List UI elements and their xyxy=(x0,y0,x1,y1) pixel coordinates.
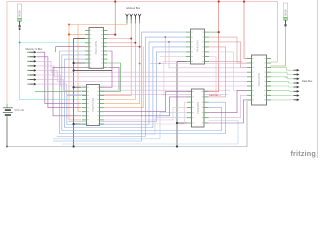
junction black U2 pin 1 xyxy=(73,86,75,88)
wire purple U1 pin 10 to U2 pin 8 xyxy=(53,67,85,116)
wire black branch under U1 xyxy=(74,70,112,72)
wire black branch to U4 pin 7 xyxy=(177,122,187,124)
wire purple M2 header to U5 pin 17 xyxy=(37,61,247,72)
junction red tap row4 xyxy=(134,42,136,44)
wire battery negative to GND rail xyxy=(6,118,8,147)
svg-text:74HC245N: 74HC245N xyxy=(257,73,261,87)
svg-text:Address Bus: Address Bus xyxy=(126,7,141,10)
wire purple M4 header to U5 pin 15 xyxy=(37,70,247,81)
wire VCC drop to U1 pin 19 xyxy=(107,2,115,35)
wire pale pink U2 pin 15 to U4 pin 3 xyxy=(104,102,187,124)
wire green data D0 U5 to header xyxy=(267,68,294,71)
svg-text:74HC245N: 74HC245N xyxy=(94,41,98,55)
wire light purple left tail at y63.5 xyxy=(150,63,165,65)
connector header Memory In Bus xyxy=(27,51,36,86)
canvas right edge line xyxy=(316,0,318,158)
wire stub U3 pin 14 to VCC drop xyxy=(209,31,219,33)
wire green data D4 U5 to header xyxy=(267,86,294,87)
wire blue D4 U3 pin 2 strand xyxy=(57,37,186,136)
svg-text:fritzing: fritzing xyxy=(290,149,316,158)
junction orange A0 corner xyxy=(68,24,70,26)
junction GND rail battery corner xyxy=(6,146,8,148)
wire pink L into U3 pin 6 xyxy=(160,56,186,58)
wire red U1 pin 15 tap xyxy=(108,46,140,48)
junction U1 pin 19 VCC xyxy=(114,34,116,36)
junction purple tap on U3 row2 xyxy=(164,36,166,38)
wire purple U2 pin 17 to U4 pin 2 xyxy=(104,97,187,116)
wire green data D2 U5 to header xyxy=(267,77,294,79)
wire blue D0 U1 pin 14 to U4 pin 12 xyxy=(59,51,225,134)
IC U1 74HC245N xyxy=(85,28,108,69)
wire orange A2 vertical to U2 pin 29 xyxy=(104,24,135,100)
svg-text:Data Bus: Data Bus xyxy=(302,80,313,83)
wire black branch to U1 pin 9 xyxy=(74,62,85,64)
junction red tap row5 xyxy=(139,46,141,48)
wire black GND U1 pin 17 xyxy=(74,39,85,147)
wire green data D7 U5 to header xyxy=(267,99,294,101)
wire blue D1 U1 pin 13 to U4 pin 11 xyxy=(62,55,222,131)
junction purple tap on U3 row3 xyxy=(168,41,170,43)
IC U2 74HC574N xyxy=(82,85,104,126)
junction teal top xyxy=(19,28,21,30)
wire pale purple U5 pin 12 to U4 pin 9 xyxy=(209,95,248,117)
junction orange A0 branch xyxy=(68,33,70,35)
junction orange A3 crossing xyxy=(139,63,141,65)
wire pink L vertical near U3 xyxy=(164,62,177,96)
junction black under U1 xyxy=(73,69,75,71)
connector header Address Bus xyxy=(126,14,141,24)
wire teal net from J1 to U1 pin 3 and U2 pin 4 xyxy=(20,29,82,100)
wire orange A1 vertical to U2 pin 30 xyxy=(104,24,131,96)
junction VCC rail at x244 xyxy=(243,0,245,2)
wire green data D6 U5 to header xyxy=(267,94,294,96)
wire light blue strand to U4 pin 10 xyxy=(160,112,187,114)
svg-text:io3: io3 xyxy=(285,77,287,79)
power symbol J1 5V supply top-left xyxy=(18,4,22,27)
junction red tap row3 xyxy=(130,38,132,40)
wire red U3 pin 12 to U5 pin 18 xyxy=(209,42,247,68)
junction light purple at y63.5 xyxy=(159,63,161,65)
net GND bottom rail xyxy=(7,101,247,147)
wire red U1 pin 17 tap xyxy=(108,38,131,40)
junction black U4 pin 7 xyxy=(176,122,178,124)
wire purple M7 header long xyxy=(37,84,228,95)
wire purple M1 header to U2 pin 6 xyxy=(37,57,82,108)
wire blue D5 U3 pin 1 strand xyxy=(53,32,186,141)
battery BT1 VCC +5v xyxy=(3,104,25,118)
wire light blue strand vertical xyxy=(53,113,160,139)
wire purple U1 pin 11 to U2 pin 20 xyxy=(104,51,112,87)
wire orange A0 continuation to U2 pin 9 xyxy=(69,34,82,120)
IC U5 74HC245N xyxy=(247,55,271,105)
wire black GND U3 pin 7 to rail xyxy=(177,62,186,147)
wire blue D3 U2 pin 30 to U3 pin 3 xyxy=(67,42,186,125)
svg-text:74HC574N: 74HC574N xyxy=(91,98,95,112)
wire red U3 pin 11 to U4 pin 13 xyxy=(209,47,226,97)
wire red U3 pin 13 to U5 pin 19 xyxy=(209,37,247,63)
junction black U2 pin 11 xyxy=(73,123,75,125)
svg-text:74HC00N: 74HC00N xyxy=(196,40,200,52)
svg-text:RAM/WE: RAM/WE xyxy=(209,94,219,97)
connector header Data Bus xyxy=(294,69,300,101)
wire orange A3 vertical to U2 pin 28 xyxy=(104,24,140,104)
wire purple U1 pin 7 down xyxy=(108,67,119,90)
wire teal branch to U1 pin 3 xyxy=(20,42,85,44)
svg-text:5V/3A: 5V/3A xyxy=(19,10,22,17)
junction VCC rail at x219 xyxy=(218,0,220,2)
wire purple M5 header to U5 pin 14 xyxy=(37,75,247,86)
wire VCC drop to U5 pin 20 xyxy=(244,2,251,59)
svg-text:Memory In Bus: Memory In Bus xyxy=(26,48,44,51)
wire pale red U3 pin 10 down xyxy=(209,52,247,91)
wire purple U2 pin 18 to U4 pin 1 xyxy=(104,92,187,112)
wire blue D6 U3 pin 5 strand xyxy=(69,52,187,122)
junction U3 pin 14 VCC xyxy=(218,31,220,33)
wire GND stub at U5 xyxy=(247,99,251,101)
wire light purple tap net to U5 pin 18 lower xyxy=(169,42,247,68)
wire black branch to U2 pin 11 xyxy=(74,123,82,125)
power symbol J2 5V supply top-right xyxy=(283,3,287,26)
wire pale pink U2 pin 16 to U4 pin 4 xyxy=(104,107,187,120)
wire green data D5 U5 to header xyxy=(267,90,294,93)
wire red U3 pin 8 long xyxy=(209,61,242,63)
wire purple M3 header to U5 pin 16 xyxy=(37,66,247,77)
wire blue D2 U1 pin 12 to U3 pin 4 xyxy=(65,47,187,128)
wire purple U5 pin 11 to U4 pin 8 xyxy=(209,100,248,123)
wire tan from J2 to U5 pin 1 xyxy=(271,26,286,66)
wire pale red U3 pin 9 down xyxy=(209,57,221,96)
wire green data D3 U5 to header xyxy=(267,81,294,83)
junction GND rail at x177 xyxy=(176,145,178,147)
wire red U1 pin 16 tap xyxy=(108,42,135,44)
wire light purple tap net to U5 pin 19 lower xyxy=(165,37,247,63)
junction black U1 pin 9 xyxy=(73,62,75,64)
wire green data D1 U5 to header xyxy=(267,72,294,74)
net VCC perimeter wire xyxy=(7,2,278,105)
wire purple M0 header to U2 pin 5 xyxy=(37,52,82,103)
wire light blue strand to U4 pin 9 xyxy=(120,118,187,134)
junction VCC rail at x115 xyxy=(114,0,116,2)
junction GND rail at x74 xyxy=(73,145,75,147)
junction teal branch xyxy=(19,42,21,44)
wire black branch to U2 pin 1 xyxy=(74,86,82,88)
wire orange A0 from header to U1 pin 18 xyxy=(69,24,127,35)
svg-text:5V/3A: 5V/3A xyxy=(284,9,287,16)
svg-text:74HC08N: 74HC08N xyxy=(196,102,200,114)
IC U4 74HC08N xyxy=(187,89,209,127)
wire purple M6 header long xyxy=(37,80,230,91)
svg-text:VCC +5v: VCC +5v xyxy=(15,109,25,112)
wire orange A4 vertical to U2 pin 27 xyxy=(104,47,143,108)
wire orange branch to U2 pin 7 xyxy=(78,25,82,112)
wire VCC drop to U3 pin 14 and U4 pin 14 xyxy=(209,2,219,92)
wire green long into U2 pin 2 xyxy=(35,90,82,92)
wire purple U5 pin 13 to U4 pin 10 xyxy=(209,91,248,113)
wire light blue bottom bus strand xyxy=(62,121,238,145)
wire purple M0 spur to U1 pin 15 xyxy=(56,47,85,53)
wire green U1 pin 8 to U2 pin 19 xyxy=(104,63,121,91)
IC U3 74HC00N xyxy=(186,29,209,64)
